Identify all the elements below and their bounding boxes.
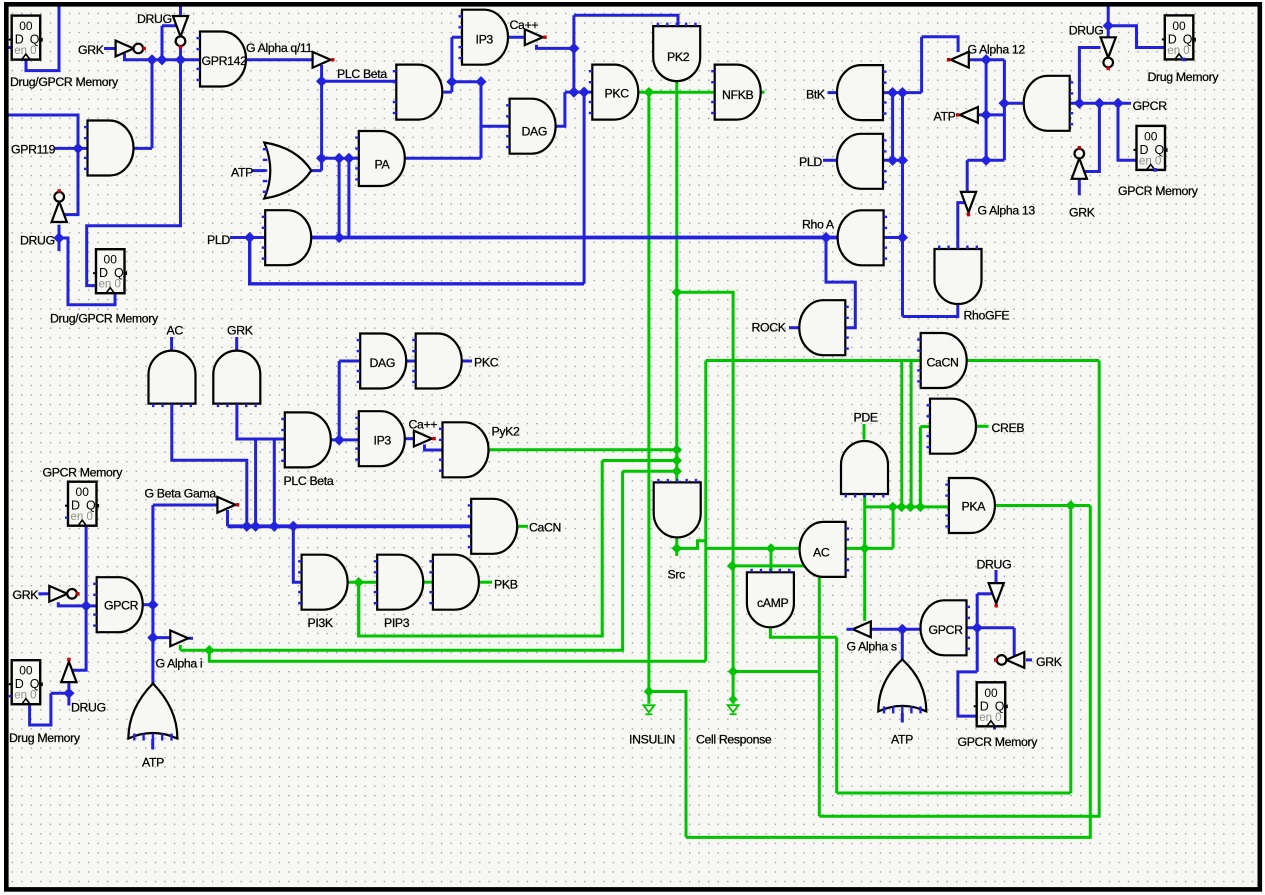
wire IP3 input [452, 36, 462, 39]
inverter GRK top left [116, 41, 146, 57]
junction Cell Response upper [727, 561, 737, 571]
svg-text:GRK: GRK [227, 324, 254, 338]
wire BtK output [828, 91, 840, 94]
junction Rho A net [897, 232, 908, 243]
svg-text:DRUG: DRUG [1069, 24, 1104, 38]
svg-text:IP3: IP3 [374, 434, 392, 448]
wire DAG PA column [480, 82, 483, 159]
wire PLC2 riser 1 [254, 439, 257, 526]
AND gate PKB [429, 555, 479, 610]
AND gate Src [654, 479, 701, 538]
junction G Alpha s net [897, 624, 908, 635]
wire PLD branch down [250, 238, 584, 284]
wire G Beta Gama input [153, 504, 219, 507]
AND gate PyK2 [439, 422, 489, 477]
wire AC input line [846, 547, 894, 550]
wire GRK gate label stub [235, 337, 238, 353]
AND gate Rho A [838, 210, 887, 265]
wire G Alpha q/11 buffer drop [320, 65, 323, 171]
wire DRUG2 to Drug Memory en [1108, 26, 1165, 48]
junction BtK net B [897, 87, 908, 98]
wire DRUG2 inverter side link [1079, 48, 1100, 104]
wire CaCN output to right riser [966, 359, 1100, 362]
svg-text:DRUG: DRUG [20, 234, 55, 248]
junction GPCR3 in [81, 600, 92, 611]
wire PI3K input [293, 526, 301, 582]
junction G Alpha i split [204, 645, 214, 655]
svg-text:Drug/GPCR Memory: Drug/GPCR Memory [50, 312, 159, 326]
wire ATP buffer output [976, 113, 1005, 116]
wire PLD2 input row [883, 159, 903, 162]
wire PIP3 net [359, 461, 603, 637]
svg-text:G Alpha s: G Alpha s [847, 640, 897, 654]
svg-text:Ca++: Ca++ [409, 418, 438, 432]
wire PDE label stub [863, 424, 866, 440]
junction bus PA [334, 232, 345, 243]
wire PI3K output [346, 581, 377, 584]
svg-text:PKC: PKC [605, 87, 630, 101]
flip-flop Drug Memory right [1162, 15, 1196, 59]
svg-text:GPCR Memory: GPCR Memory [43, 466, 124, 480]
wire PKC2 output to label [460, 360, 472, 363]
junction GPCR out [999, 98, 1010, 109]
AND gate GPCR left [93, 577, 143, 632]
buffer G Alpha 13 [961, 192, 976, 216]
wire GPCR4 input row [967, 626, 1015, 629]
svg-text:GPCR Memory: GPCR Memory [958, 735, 1039, 749]
junction GPCR row C [1112, 98, 1123, 109]
wire top bus to PK2 [574, 15, 678, 26]
svg-text:Cell Response: Cell Response [696, 733, 772, 747]
wire GPCR label row [1070, 102, 1131, 105]
wire ATP OR output [309, 169, 322, 172]
wire PLC2 riser 2 [273, 439, 276, 526]
svg-text:PKB: PKB [494, 578, 518, 592]
wire PKB output stub [479, 581, 492, 584]
wire PK2 branch to Cell Response column [677, 292, 733, 703]
svg-text:Drug Memory: Drug Memory [9, 731, 81, 745]
wire DAG output elbow [552, 92, 565, 126]
svg-text:DRUG: DRUG [71, 701, 106, 715]
buffer G Alpha q/11 [313, 52, 335, 68]
junction INSULIN branch [644, 686, 654, 696]
svg-text:PLC Beta: PLC Beta [337, 67, 387, 81]
wire PA input row [322, 157, 359, 160]
wire DRUG inverter output [179, 47, 182, 60]
AND gate ROCK [799, 300, 848, 355]
wire GPR119 label to gate [55, 147, 88, 150]
junction DRUG2 top [1103, 20, 1114, 31]
junction bus Rho A [820, 232, 831, 243]
svg-text:GRK: GRK [1036, 655, 1063, 669]
svg-text:GPCR Memory: GPCR Memory [1118, 184, 1199, 198]
svg-text:PA: PA [375, 158, 391, 172]
wire GRK inverter to GPR142 input [125, 54, 201, 60]
AND gate GPCR right [921, 600, 971, 655]
wire border to FF1 en [6, 46, 12, 49]
wire PKC input row [565, 91, 592, 94]
buffer G Alpha s [853, 621, 871, 637]
wire DRUG to FF2 clock [59, 238, 115, 305]
AND gate CaCN left [468, 499, 518, 554]
svg-text:ROCK: ROCK [752, 321, 787, 335]
wire PyK2 green tick [487, 448, 490, 451]
wire PKA branch down [1069, 506, 1072, 794]
svg-text:AC: AC [167, 324, 184, 338]
wire DAG2 input [339, 360, 360, 363]
pin Drug Memory right clock [1182, 58, 1186, 62]
wire ATP OR2 output riser [901, 629, 904, 661]
wire G Alpha 12 net drop [1003, 60, 1006, 161]
AND gate IP3 mid [355, 411, 404, 466]
svg-text:CaCN: CaCN [927, 356, 959, 370]
wire GRK3 inverter to GPCR input [58, 602, 96, 606]
wire AC1 label stub [170, 337, 173, 353]
inverter GRK bottom right [994, 652, 1024, 668]
wire G Alpha s output stub [847, 628, 854, 631]
wire PDE riser right [892, 507, 895, 549]
wire DAG input [481, 125, 510, 128]
inverter GRK bottom left [49, 586, 79, 602]
pin GPCR Memory right clock [1153, 168, 1157, 172]
AND gate PDE [841, 441, 888, 498]
svg-text:G Alpha 12: G Alpha 12 [968, 43, 1026, 57]
port INSULIN [643, 705, 654, 714]
flip-flop GPCR Memory bottom right [974, 682, 1008, 726]
junction PLD2 in A [887, 155, 898, 166]
wire bottom jog to middle riser [733, 670, 819, 673]
junction PLC Beta tap [316, 76, 327, 87]
wire bottom bus outer [686, 506, 1090, 838]
junction PKC in A [568, 87, 579, 98]
wire G Alpha 12 output row [966, 58, 1004, 61]
AND gate GRK mid [213, 351, 260, 408]
svg-text:cAMP: cAMP [757, 596, 789, 610]
AND gate PKA [945, 478, 995, 533]
AND gate PLC Beta top [393, 65, 442, 120]
wire PDE output stub [863, 492, 866, 507]
wire PA row riser 2 [347, 158, 350, 237]
svg-text:DAG: DAG [370, 356, 396, 370]
junction DRUG lower [53, 232, 64, 243]
junction bus526 C [269, 521, 280, 532]
svg-text:GPR142: GPR142 [202, 54, 248, 68]
svg-text:GRK: GRK [1069, 206, 1096, 220]
junction DRUG bottom left [63, 688, 74, 699]
wire CREB output stub [977, 425, 989, 428]
wire AC junction to G Alpha s [863, 548, 866, 620]
svg-text:GRK: GRK [78, 43, 105, 57]
wire DAG2 output [404, 360, 416, 363]
AND gate AC right [800, 522, 850, 577]
svg-text:GPCR: GPCR [1133, 99, 1168, 113]
svg-text:00: 00 [19, 664, 33, 678]
wire BtK net riser to G Alpha 12 [920, 37, 923, 93]
wire G Alpha s output row [872, 628, 921, 631]
wire G Beta Gama bus [228, 524, 472, 528]
wire FF5 clock stub [993, 726, 996, 729]
svg-text:PIP3: PIP3 [384, 616, 410, 630]
AND gate PKC mid [412, 334, 462, 389]
wire Rho A input [884, 236, 903, 239]
junction AC output [766, 543, 776, 553]
buffer Ca++ mid [414, 431, 436, 447]
wire PIP3 output [422, 581, 433, 584]
wire ATP net riser [985, 60, 988, 161]
AND gate PA [355, 131, 405, 186]
wire CaCN1 output stub [516, 525, 529, 528]
wire AC output to cAMP input [770, 548, 773, 572]
AND gate CaCN right [917, 333, 967, 388]
wire CaCN input bus [706, 359, 921, 362]
svg-text:PLD: PLD [799, 155, 822, 169]
wire PLD label to gate [230, 236, 265, 239]
wire GRK gate drop [237, 402, 285, 439]
svg-text:00: 00 [1144, 129, 1158, 143]
wire PLC to IP3 riser [450, 37, 453, 92]
wire Src output jog to bus column [677, 541, 706, 549]
svg-text:BtK: BtK [806, 88, 826, 102]
junction PKA output [1066, 500, 1076, 510]
AND gate GPR119 [84, 121, 134, 176]
AND gate DAG mid [357, 334, 407, 389]
AND gate PLC Beta mid [281, 412, 331, 467]
wire FF1 clock loop [26, 5, 59, 71]
svg-text:PDE: PDE [854, 411, 878, 425]
junction GRK net A [146, 54, 157, 65]
wire Ca++ output elbow [537, 45, 574, 49]
junction GPCR3 out [147, 599, 158, 610]
wire DRUG2 from top border [1107, 5, 1110, 38]
wire PLC2 output [329, 438, 339, 441]
wire DRUG3 to GPCR Memory en [958, 672, 977, 716]
wire DRUG input from top border [179, 5, 182, 16]
svg-text:DRUG: DRUG [977, 558, 1012, 572]
wire PIP3 net riser to Src [602, 459, 677, 462]
wire Rho A input riser [901, 93, 904, 317]
AND gate PIP3 [374, 555, 424, 610]
wire GRK3 label to inverter [38, 592, 50, 595]
wire GRK label to inverter [104, 47, 115, 50]
svg-text:PI3K: PI3K [308, 616, 334, 630]
AND gate GPCR top right [1024, 76, 1073, 131]
junction PLC net B [475, 76, 486, 87]
svg-text:GPCR: GPCR [929, 623, 964, 637]
svg-text:AC: AC [813, 546, 830, 560]
wire Cell Response column branch [733, 566, 819, 816]
svg-text:PLD: PLD [207, 233, 230, 247]
svg-text:GPCR: GPCR [104, 599, 139, 613]
svg-text:GPR119: GPR119 [11, 143, 56, 157]
junction GPCR row A [1074, 98, 1085, 109]
svg-text:G Beta Gama: G Beta Gama [145, 487, 217, 501]
AND gate IP3 top [459, 10, 508, 65]
svg-text:GRK: GRK [13, 588, 40, 602]
wire G Alpha 13 drop [966, 160, 969, 193]
svg-text:CaCN: CaCN [529, 521, 561, 535]
wire PKC input riser long [583, 92, 586, 284]
svg-text:NFKB: NFKB [722, 88, 754, 102]
svg-text:PKA: PKA [962, 500, 987, 514]
wire G Alpha i net to INSULIN column [209, 650, 706, 661]
junction G Alpha i tap [147, 632, 158, 643]
wire PI3K branch down [357, 582, 360, 636]
junction PLD label [244, 232, 255, 243]
junction PA riser 2 [343, 153, 354, 164]
svg-text:ATP: ATP [891, 733, 913, 747]
wire G Alpha i input [153, 636, 172, 639]
flip-flop Drug Memory left [9, 660, 43, 704]
wire ATP label to OR [252, 169, 266, 172]
inverter DRUG top right [1101, 37, 1116, 70]
svg-text:INSULIN: INSULIN [629, 733, 675, 747]
wire PLD2 output [823, 159, 839, 162]
svg-text:PK2: PK2 [667, 50, 690, 64]
wire DRUG to Drug Memory clock [51, 692, 69, 695]
buffer G Alpha 12 [947, 52, 969, 68]
AND gate BtK [837, 65, 886, 120]
wire PLC Beta top output [444, 91, 452, 94]
junction PKC in B [579, 87, 590, 98]
svg-text:DRUG: DRUG [137, 12, 172, 26]
svg-text:G Alpha 13: G Alpha 13 [978, 204, 1036, 218]
wire CREB input riser [919, 427, 922, 507]
wire Src-AC column [704, 361, 707, 662]
inverter GPR119 drug [52, 189, 67, 222]
wire GRK2 stub [1078, 179, 1081, 195]
buffer Ca++ top [525, 29, 547, 45]
wire G Alpha i second net riser to Src [623, 470, 677, 473]
wire Drug Memory clock loop [30, 693, 51, 725]
flip-flop GPCR Memory left [65, 482, 99, 526]
wire bottom bus inner [837, 792, 1071, 795]
junction PLC net A [446, 76, 457, 87]
svg-text:Drug Memory: Drug Memory [1148, 70, 1220, 84]
wire G Alpha i buffer output drop [179, 645, 182, 650]
inverter DRUG top left [173, 16, 188, 49]
junction bus526 A [241, 521, 252, 532]
AND gate CREB [927, 399, 977, 454]
wire left bus GPR119 [6, 115, 78, 215]
wire IP3 2 input [339, 438, 359, 441]
wire RhoGFE output loop [903, 301, 958, 317]
svg-text:PKC: PKC [474, 356, 499, 370]
AND gate NFKB [711, 65, 760, 120]
wire GPCR net column [151, 505, 154, 684]
wire G Alpha i net lower [180, 471, 622, 650]
AND gate PLD right [837, 134, 887, 189]
wire PKC net vertical to INSULIN [647, 92, 650, 704]
junction Cell Response lower [728, 666, 738, 676]
wire AC output line [706, 547, 799, 550]
wire PKC output to NFKB [636, 91, 715, 94]
port Cell Response [728, 695, 739, 715]
buffer ATP right [956, 107, 978, 123]
wire PDE output row to PKA [865, 505, 949, 508]
junction PA riser 1 [334, 153, 345, 164]
svg-text:ATP: ATP [231, 166, 253, 180]
junction BtK net A [887, 87, 898, 98]
junction Src out [672, 543, 682, 553]
wire CREB input [920, 425, 931, 428]
wire bottom bus middle [819, 361, 1099, 817]
wire PA row riser 1 [338, 158, 341, 237]
AND gate PI3K [298, 555, 348, 610]
svg-text:00: 00 [104, 253, 118, 267]
AND gate PK2 [653, 23, 700, 82]
junction PK2 branch [672, 287, 682, 297]
svg-text:00: 00 [1172, 19, 1186, 33]
wire G Alpha 13 to RhoGFE [958, 203, 964, 249]
svg-text:DAG: DAG [522, 125, 548, 139]
junction bus526 B [250, 521, 261, 532]
svg-text:RhoGFE: RhoGFE [964, 309, 1010, 323]
buffer G Beta Gama [217, 497, 239, 513]
svg-text:G Alpha i: G Alpha i [156, 657, 203, 671]
buffer G Alpha i [170, 630, 188, 646]
wire IP3 output to Ca++ [507, 36, 528, 39]
wire cAMP output [770, 627, 836, 637]
svg-text:00: 00 [76, 485, 90, 499]
svg-text:Drug/GPCR Memory: Drug/GPCR Memory [10, 75, 119, 89]
junction bus526 D [288, 521, 299, 532]
svg-text:PyK2: PyK2 [492, 425, 521, 439]
wire INSULIN branch to right riser [649, 692, 686, 838]
wire DRUG3 label stub [995, 570, 998, 583]
wire BtK input row [883, 91, 922, 94]
svg-text:ATP: ATP [934, 110, 956, 124]
wire G Beta Gama output drop [226, 510, 229, 526]
buffer DRUG bottom left [61, 658, 76, 682]
svg-text:Src: Src [668, 568, 686, 582]
wire GPR119 inverter stub [58, 225, 61, 251]
AND gate DAG top [506, 99, 555, 154]
wire GPR142 output to G Alpha q/11 [244, 58, 313, 61]
wire Src output stub [675, 537, 678, 556]
wire PLD2 riser [891, 93, 894, 161]
wire DRUG branch elbow [162, 24, 181, 27]
junction PDE row C [905, 502, 915, 512]
wire PK2 output vertical [675, 79, 678, 482]
junction PDE row B [896, 502, 906, 512]
wire G Alpha i output stub [189, 637, 194, 640]
wire GRK4 label to inverter [1026, 658, 1032, 661]
junction PDE row A [888, 502, 898, 512]
wire GRK2 net drop [1085, 103, 1099, 171]
wire PLC net branch [452, 80, 481, 83]
wire DRUG3 side link [977, 592, 992, 595]
wire GPCR Memory clock drop [73, 526, 87, 671]
junction Ca++ net [568, 43, 579, 54]
wire DRUG branch drop [161, 26, 164, 60]
wire IP3 2 output [402, 437, 415, 440]
junction PDE row D [915, 502, 925, 512]
svg-text:Ca++: Ca++ [510, 18, 539, 32]
wire PLC2 to DAG riser [338, 361, 341, 440]
svg-text:00: 00 [984, 686, 998, 700]
junction PLD2 in B [897, 155, 908, 166]
wire PyK2 output to Src net [487, 448, 677, 451]
wire cAMP output riser [835, 637, 838, 793]
svg-text:00: 00 [19, 19, 33, 33]
flip-flop GPCR Memory right [1134, 126, 1168, 170]
junction G Alpha 13 net [981, 155, 992, 166]
junction GRK net B [156, 54, 167, 65]
wire ROCK output [789, 326, 801, 329]
flip-flop Drug/GPCR Memory 2 [93, 249, 127, 293]
junction Src in B [672, 455, 682, 465]
wire GPCR3 output [141, 603, 153, 606]
